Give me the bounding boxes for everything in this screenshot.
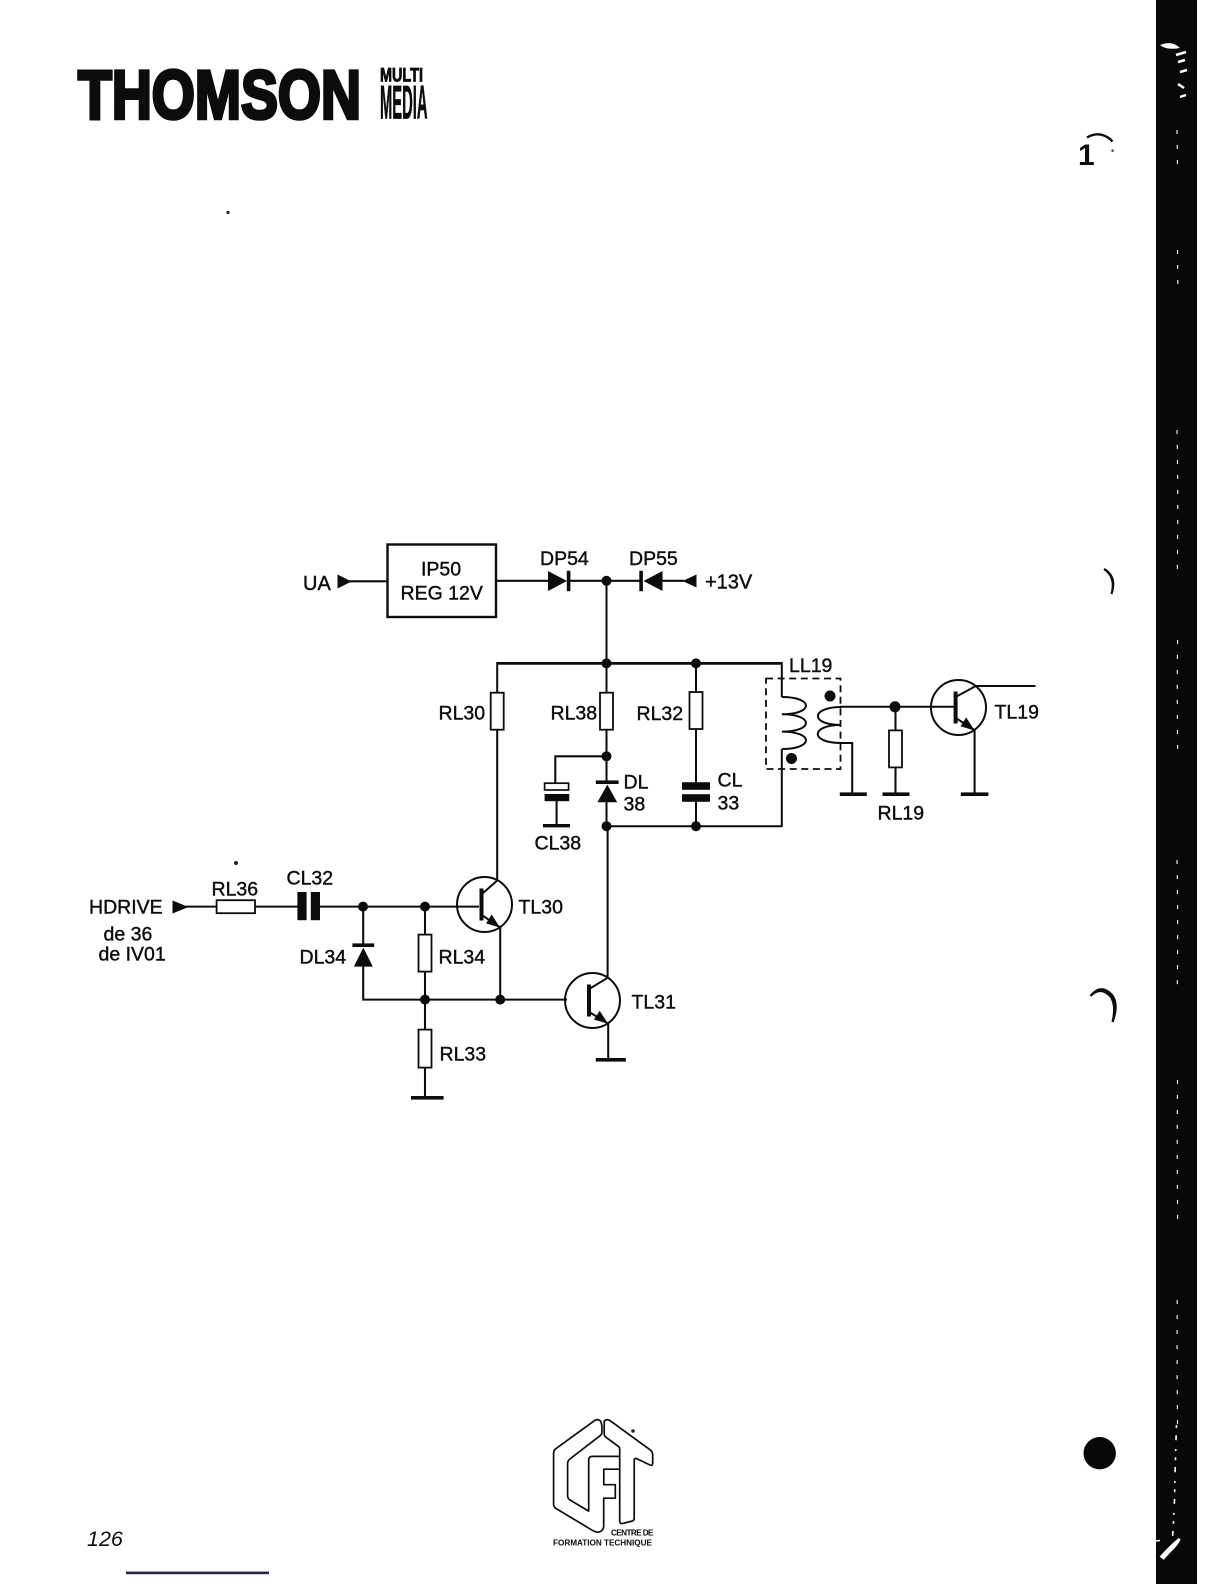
svg-text:RL34: RL34 [439,947,486,969]
footer rule [126,1572,269,1575]
scan artifact: punch hole dot [1084,1437,1116,1469]
scan artifact: curl mark lower right [1091,989,1116,1022]
wire HDRIVE to RL36 [186,906,217,908]
node TL19 base / RL19 [890,701,901,712]
wire UA to regulator [349,580,387,582]
svg-text:+13V: +13V [705,572,753,594]
resistor RL30 [439,693,504,730]
node primary polarity dot [786,753,797,764]
scan artifact: white streaks in bar [1156,43,1188,1558]
ground LL19 secondary [840,792,867,796]
svg-text:RL36: RL36 [212,879,259,901]
svg-text:RL33: RL33 [440,1044,487,1066]
inductor LL19 primary winding [782,697,806,749]
svg-text:IP50: IP50 [421,559,461,581]
wire DP54 to DP55 [570,580,640,582]
diode DP54 [540,548,589,591]
wire TL19 emitter to ground [974,730,976,793]
wire TL31 emitter to ground [607,1023,609,1058]
node lower rail / TL30 emitter [495,995,505,1005]
wire DL38 to bottom bus node [605,802,607,827]
resistor RL19 [878,730,925,824]
ground TL19 [961,792,989,796]
THOMSON logo [78,57,428,134]
resistor RL38 [551,693,614,730]
svg-text:1: 1 [1078,139,1095,172]
scan artifact: curl mark middle right [1104,569,1113,594]
svg-text:TL31: TL31 [632,992,676,1014]
resistor RL32 [637,692,703,729]
wire bus to RL38 [606,663,608,693]
svg-text:38: 38 [624,794,646,816]
resistor RL34 [419,935,486,972]
inductor LL19 secondary winding [818,707,842,743]
CFT logo outline [554,1420,653,1533]
svg-text:REG 12V: REG 12V [401,583,483,605]
HDRIVE input arrow [173,901,189,914]
node secondary polarity dot [825,691,836,702]
svg-text:33: 33 [718,793,740,815]
svg-text:MEDIA: MEDIA [380,76,428,129]
svg-text:TL19: TL19 [995,702,1039,724]
svg-text:FORMATION TECHNIQUE: FORMATION TECHNIQUE [553,1539,653,1548]
svg-text:126: 126 [87,1527,123,1551]
scan artifact: right margin black bar [1156,0,1197,1584]
wire node down to RL19 [894,707,896,731]
wire node to DL34 [362,907,364,944]
resistor RL33 [419,1030,487,1068]
wire TL30 emitter down to lower rail [499,927,501,1000]
diode DL38 [596,772,649,816]
node bottom bus / TL31 collector [602,821,612,831]
node bottom bus / CL33 [691,821,701,831]
wire CL32 to TL30 base [320,906,479,908]
svg-text:LL19: LL19 [789,655,832,677]
wire node to CL38 [555,756,606,783]
scan artifact: corner mark 1 [1078,134,1114,172]
wire RL30 to TL30 collector [496,730,498,881]
svg-text:TL30: TL30 [519,897,564,919]
UA input arrow [338,575,352,589]
transformer LL19 dashed box [766,679,841,770]
node lower rail / RL33 [420,995,430,1005]
diode DP55 [629,548,678,591]
svg-text:DP55: DP55 [629,548,678,570]
wire top bus [497,662,783,665]
ground RL33 [411,1096,444,1100]
node top bus / RL38 branch [602,658,612,668]
wire secondary bottom to ground [841,743,852,793]
wire RL33 to ground [424,1000,426,1097]
svg-text:CL38: CL38 [535,833,582,855]
wire TL19 collector [975,685,1035,687]
+13V input arrow [683,575,697,588]
wire bottom bus [607,825,782,827]
wire TL31 collector up to bottom bus [607,827,609,978]
node DL34 branch [358,902,368,912]
wire RL19 to ground [894,767,896,793]
wire RL38 to node [605,730,607,781]
svg-text:de IV01: de IV01 [99,944,166,966]
scan artifact: small specks [226,211,229,214]
CFT logo caption [553,1529,654,1548]
diode DL34 [300,943,375,968]
resistor RL36 [212,879,259,914]
svg-text:RL30: RL30 [439,703,486,725]
wire node down to top bus [606,583,608,664]
ground TL31 [596,1058,626,1062]
node HDRIVE input label [89,897,166,966]
svg-text:CL32: CL32 [287,868,334,890]
regulator IP50 box [388,545,497,618]
wire CL33 to bottom bus [695,802,697,826]
wire bus to RL32 [695,663,697,692]
wire RL34 to lower rail [424,972,426,1000]
transistor TL30 [457,877,563,932]
wire node to RL34 [424,907,426,935]
capacitor CL33 [682,770,743,815]
svg-text:HDRIVE: HDRIVE [89,897,163,919]
node RL38 / CL38 / DL38 [602,751,612,761]
wire bus corner down to RL30 [496,662,498,693]
transistor TL19 [931,680,1039,735]
capacitor CL32 [287,868,334,921]
svg-text:RL38: RL38 [551,703,598,725]
capacitor CL38 [535,783,582,854]
svg-text:CENTRE DE: CENTRE DE [611,1529,654,1538]
wire DP55 to +13V arrow [661,580,684,582]
svg-text:RL32: RL32 [637,703,684,725]
wire secondary top to TL19 base [840,706,954,708]
svg-text:CL: CL [718,770,743,792]
ground RL19 [883,792,910,796]
wire DL34 to lower rail [363,967,567,1000]
wire RL36 to CL32 [255,906,298,908]
node top bus / RL32 branch [691,658,701,668]
svg-text:DL: DL [624,772,649,794]
wire RL32 to CL33 [695,729,697,783]
svg-text:DP54: DP54 [540,548,589,570]
wire regulator to DP54 [496,580,549,582]
node RL34 branch [420,902,430,912]
svg-text:RL19: RL19 [878,803,925,825]
svg-text:de 36: de 36 [104,924,153,946]
ground CL38 [543,824,570,827]
transistor TL31 [565,973,676,1028]
wire right riser of primary loop [781,662,783,827]
svg-text:UA: UA [303,573,331,595]
svg-text:THOMSON: THOMSON [78,57,361,134]
node junction at +12V rail [602,576,612,586]
svg-text:DL34: DL34 [300,947,347,969]
